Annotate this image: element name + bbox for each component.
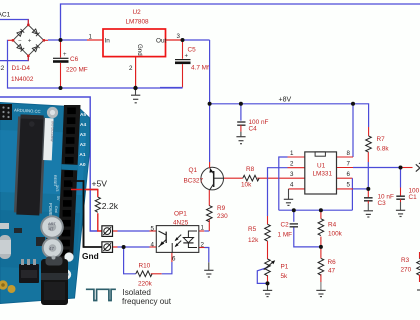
node pin5 R7 C3: [366, 187, 370, 191]
wire AC2 input to bridge bottom: [0, 56, 28, 61]
wire OP1 pin1 to R9 bottom: [199, 220, 210, 231]
label U1: [317, 163, 326, 170]
label 270: [401, 267, 412, 274]
svg-text:4N25: 4N25: [173, 220, 189, 227]
wire bridge plus to C6/U2 In: [48, 39, 87, 41]
node R4 bottom: [319, 245, 323, 249]
label LM7808: [126, 19, 150, 26]
wire R5 to P1: [267, 241, 269, 283]
label frequency out: [122, 297, 172, 306]
capacitor C3: [364, 198, 373, 211]
svg-text:1: 1: [290, 150, 294, 157]
bridge rectifier D1-D4: [8, 20, 48, 61]
wire gnd black from arduino to connector J2: [71, 181, 102, 247]
ground under P1: [263, 286, 272, 297]
svg-text:Isolated: Isolated: [123, 288, 151, 297]
label C2: [281, 222, 290, 229]
svg-text:4.7 Mf: 4.7 Mf: [191, 64, 209, 71]
svg-text:1: 1: [201, 225, 205, 232]
svg-text:1: 1: [89, 34, 93, 41]
wire C4 drop from rail: [240, 104, 242, 121]
svg-text:R6: R6: [328, 259, 337, 266]
capacitor C1: [396, 196, 405, 210]
label Q1: [189, 167, 198, 174]
wire 2.2k bottom to connector J1: [98, 213, 102, 231]
regulator U2 LM7808: [87, 29, 183, 88]
svg-text:3: 3: [177, 33, 181, 40]
svg-text:12k: 12k: [248, 237, 259, 244]
wire P1 bottom to ground: [267, 283, 269, 285]
svg-text:Gnd: Gnd: [82, 251, 99, 261]
label 5k: [281, 273, 289, 280]
svg-text:10k: 10k: [241, 182, 252, 189]
svg-text:47: 47: [328, 268, 336, 275]
node pin7 C1: [399, 166, 403, 170]
wire Gnd overlay on board: [71, 181, 84, 247]
capacitor C4: [237, 122, 245, 132]
label 100 n: [409, 187, 420, 194]
wire R10 right to OP1 pin6: [151, 252, 172, 273]
label 10 nF: [378, 193, 394, 200]
svg-text:R7: R7: [377, 136, 386, 143]
label OP1: [174, 211, 187, 218]
smd parts: [36, 237, 45, 246]
label BC327: [184, 178, 204, 185]
wire R4 node to R6: [320, 247, 322, 282]
label LM331: [313, 171, 333, 178]
wire U1 pin4 stub: [289, 188, 305, 190]
label 6.8k: [377, 146, 390, 153]
label U2: [133, 9, 142, 16]
svg-text:1N4002: 1N4002: [11, 76, 34, 83]
node C6 bottom: [59, 86, 63, 90]
off-page arrow A: [416, 163, 420, 172]
svg-text:R9: R9: [217, 205, 226, 212]
node P1 bottom: [266, 281, 270, 285]
resistor 2.2k: [95, 197, 100, 212]
wire U1 pin1 to bottom rail: [279, 157, 305, 210]
connector J2: [102, 242, 113, 253]
label R10: [139, 263, 151, 270]
svg-text:6.8k: 6.8k: [377, 146, 390, 153]
label 4N25: [173, 220, 189, 227]
wire C2 from bottom rail: [294, 210, 321, 247]
svg-text:C4: C4: [249, 126, 258, 133]
label P1: [281, 264, 289, 271]
label Isolated: [123, 288, 151, 297]
connector J1: [102, 226, 113, 237]
label +5V: [92, 179, 108, 189]
label 220 MF: [66, 67, 88, 74]
wire bridge minus to ground rail: [8, 40, 61, 88]
diode D1 top-left: [17, 29, 24, 36]
svg-text:1 MF: 1 MF: [278, 232, 293, 239]
transistor Q1: [201, 162, 224, 190]
label R4: [328, 222, 337, 229]
svg-text:A2: A2: [80, 142, 86, 148]
svg-text:A4: A4: [80, 122, 86, 128]
svg-text:P1: P1: [281, 264, 289, 271]
svg-text:Q1: Q1: [189, 167, 198, 174]
ground under regulator: [131, 88, 140, 103]
svg-text:R3: R3: [401, 257, 410, 264]
electrolytic cap 1: [40, 215, 64, 239]
svg-text:INI-0531BW: INI-0531BW: [50, 121, 55, 142]
svg-text:47: 47: [49, 246, 55, 251]
svg-text:230: 230: [217, 213, 228, 220]
label 4.7 Mf: [191, 64, 209, 71]
wire J2 to OP1 pin4: [112, 246, 156, 248]
svg-text:A5: A5: [80, 112, 86, 118]
node bottom rail C2: [292, 208, 296, 212]
silver standoff: [47, 107, 58, 118]
svg-text:3: 3: [290, 171, 294, 178]
svg-text:AST: AST: [48, 221, 56, 226]
wire +8V rail: [210, 104, 369, 127]
white sticker: [43, 118, 53, 160]
svg-text:−: −: [18, 38, 22, 44]
svg-text:Gnd: Gnd: [54, 206, 58, 213]
diode D2 top-right: [32, 29, 39, 36]
svg-text:C2: C2: [281, 222, 290, 229]
svg-text:AC2: AC2: [0, 65, 5, 72]
svg-text:A3: A3: [80, 132, 86, 138]
svg-text:220k: 220k: [138, 281, 153, 288]
svg-text:R8: R8: [246, 166, 255, 173]
svg-text:In: In: [105, 38, 111, 45]
header strip: [58, 105, 81, 260]
svg-text:+5V: +5V: [92, 179, 108, 189]
resistor R7: [366, 136, 372, 152]
svg-text:U2: U2: [133, 9, 142, 16]
svg-text:AC1: AC1: [0, 12, 11, 19]
svg-text:LM331: LM331: [313, 171, 333, 178]
wire top unregulated rail: [61, 4, 420, 40]
resistor R3 clipped at edge: [417, 252, 420, 290]
wire U1 pin5 to node: [337, 188, 369, 190]
wire ground rail under regulator: [61, 87, 183, 89]
wire Q1 base to R8 to U1 pin3: [223, 177, 304, 179]
svg-text:2.2k: 2.2k: [102, 201, 119, 211]
capacitor C5: [160, 40, 191, 88]
node C4: [239, 102, 243, 106]
node rail left: [208, 102, 212, 106]
potentiometer P1: [264, 259, 276, 276]
wire C1 node down to C1: [400, 168, 402, 197]
label 220k: [138, 281, 153, 288]
svg-text:2: 2: [290, 161, 294, 168]
svg-text:+: +: [63, 52, 67, 58]
analog pin labels: [79, 112, 86, 168]
wire arduino frame top/right to +5V connector: [0, 97, 98, 231]
label C4: [249, 126, 258, 133]
svg-text:100k: 100k: [328, 231, 343, 238]
label D1-D4: [12, 65, 31, 72]
label R3: [401, 257, 410, 264]
svg-text:+8V: +8V: [279, 96, 292, 103]
capacitor C6: [53, 40, 69, 88]
wire U1 pin7 to C1 node and off-page: [337, 167, 413, 169]
svg-text:6: 6: [347, 171, 351, 178]
svg-text:+: +: [185, 54, 189, 60]
svg-text:5k: 5k: [281, 273, 289, 280]
node pin8 rail: [351, 102, 355, 106]
label +8V: [279, 96, 292, 103]
label 47: [328, 268, 336, 275]
label R9: [217, 205, 226, 212]
svg-text:4: 4: [290, 182, 294, 189]
regulator: [19, 264, 39, 283]
wire OP1 pin2 to ground: [199, 248, 209, 263]
electrolytic cap 2: [42, 237, 64, 259]
resistor R6: [318, 258, 324, 275]
ground under R6: [316, 282, 325, 297]
svg-text:270: 270: [401, 267, 412, 274]
svg-text:D1-D4: D1-D4: [12, 65, 31, 72]
label Gnd: [82, 251, 99, 261]
wire Q1 collector to R9: [208, 190, 210, 206]
wire U1 pin8 stub: [337, 156, 354, 158]
wire P1 wiper loop: [257, 268, 267, 284]
label AC1: [0, 12, 11, 19]
wire pin8 to rail: [352, 104, 354, 157]
svg-text:A0: A0: [79, 162, 85, 168]
node J2: [122, 245, 126, 249]
svg-text:frequency out: frequency out: [122, 297, 172, 306]
resistor R5: [265, 224, 271, 241]
ground under OP1 pin2: [204, 262, 213, 277]
crystal: [0, 235, 11, 259]
optocoupler OP1 4N25: [151, 225, 205, 263]
ground under U1 pin4: [284, 189, 293, 206]
ICSP header: [0, 104, 12, 120]
svg-text:4: 4: [151, 242, 155, 249]
svg-text:BC327: BC327: [184, 178, 204, 185]
power jack: [41, 259, 68, 305]
wire AC1 input to bridge top: [0, 20, 28, 25]
resistor R9: [207, 206, 213, 222]
svg-text:C3: C3: [378, 200, 387, 207]
svg-text:C5: C5: [188, 47, 197, 54]
diode D3 bottom-right: [32, 44, 39, 51]
svg-text:A1: A1: [79, 152, 85, 158]
label C1: [409, 194, 418, 201]
wire R4 leads: [320, 210, 322, 247]
svg-text:5: 5: [151, 226, 155, 233]
label 10k: [241, 182, 252, 189]
wire 2.2k top from +5V pin: [71, 190, 98, 198]
wire bottom rail pin1 to pin6: [279, 209, 353, 211]
svg-text:2: 2: [201, 241, 205, 248]
label R8: [246, 166, 255, 173]
svg-text:U1: U1: [317, 163, 326, 170]
resistor R8: [243, 175, 259, 181]
svg-text:LM7808: LM7808: [126, 19, 150, 26]
node C6 top: [59, 38, 63, 42]
svg-text:5V: 5V: [56, 196, 60, 201]
svg-text:Out: Out: [156, 38, 167, 45]
svg-text:R4: R4: [328, 222, 337, 229]
label AC2: [0, 65, 5, 72]
svg-text:8: 8: [347, 150, 351, 157]
LED inside OP1: [183, 238, 193, 243]
label R6: [328, 259, 337, 266]
label 1 MF: [278, 232, 293, 239]
svg-text:R5: R5: [248, 226, 257, 233]
Arduino Uno board photo: [0, 103, 89, 306]
label 1N4002: [11, 76, 34, 83]
svg-text:7: 7: [347, 161, 351, 168]
label 12k: [248, 237, 259, 244]
light arrows: [175, 235, 181, 241]
label R7: [377, 136, 386, 143]
label 2.2k: [102, 201, 119, 211]
wire R7 bottom to pin5 node: [367, 152, 369, 189]
wire +5V overlay on board: [71, 189, 98, 191]
tantalum caps: [0, 280, 8, 289]
wire R7 top lead: [368, 127, 370, 136]
svg-text:2: 2: [129, 65, 133, 72]
mounting holes: [64, 252, 73, 261]
node U2 out: [181, 38, 185, 42]
svg-text:6: 6: [172, 256, 176, 263]
diode D4 bottom-left: [17, 44, 24, 51]
node ground rail: [133, 86, 137, 90]
label C6: [70, 56, 79, 63]
svg-text:+: +: [28, 38, 32, 45]
svg-text:5: 5: [347, 182, 351, 189]
svg-text:Gnd: Gnd: [136, 44, 143, 56]
wire U1 pin2 to R5: [268, 168, 305, 225]
label C3: [378, 200, 387, 207]
label 100 nF: [249, 119, 269, 126]
svg-text:47: 47: [49, 227, 55, 232]
svg-text:C1: C1: [409, 194, 418, 201]
resistor R4: [318, 219, 324, 236]
wire J1 to OP1 pin5: [112, 230, 156, 232]
square wave symbol: [86, 289, 116, 300]
ground under C3: [364, 211, 373, 217]
label C5: [188, 47, 197, 54]
wire J2 node down to R10 left: [124, 247, 136, 274]
svg-text:C6: C6: [70, 56, 79, 63]
svg-text:3V3: 3V3: [55, 185, 59, 191]
IC U1 LM331: [290, 150, 351, 194]
wire U1 pin6 down to bottom rail: [337, 178, 353, 210]
label 100k: [328, 231, 343, 238]
svg-text:OP1: OP1: [174, 211, 187, 218]
wire U2 out node to +8V rail and Q1 emitter: [183, 40, 210, 162]
PCB: [0, 103, 90, 304]
svg-text:R10: R10: [139, 263, 151, 270]
node bottom rail R4: [319, 208, 323, 212]
capacitor C2: [290, 224, 298, 227]
label R5: [248, 226, 257, 233]
ATmega chip: [14, 114, 46, 215]
label 230: [217, 213, 228, 220]
svg-text:220 MF: 220 MF: [66, 67, 88, 74]
ground under C1: [396, 210, 405, 216]
wire pin5 node to C3: [367, 189, 369, 197]
ground under C4: [236, 132, 245, 144]
resistor R10: [136, 271, 152, 277]
